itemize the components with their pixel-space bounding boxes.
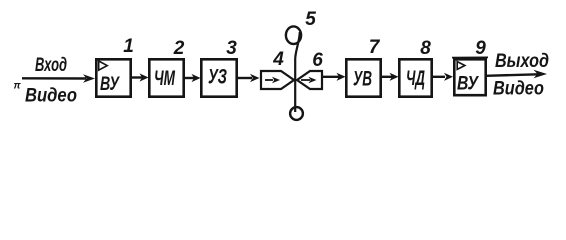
svg-text:1: 1 bbox=[123, 36, 134, 57]
arrowhead inside record head bbox=[272, 77, 280, 84]
wire: U1 to U2 bbox=[131, 76, 142, 78]
wire: input line into U1 bbox=[22, 77, 86, 80]
svg-text:ВУ: ВУ bbox=[457, 74, 480, 95]
svg-text:УЗ: УЗ bbox=[208, 66, 227, 89]
svg-text:УВ: УВ bbox=[353, 68, 372, 91]
svg-text:π: π bbox=[14, 81, 22, 92]
playback head 6 (pentagon) bbox=[297, 71, 322, 89]
block 1 input amplifier VU bbox=[96, 59, 130, 96]
wire: U7 to U8 bbox=[381, 76, 392, 78]
svg-text:7: 7 bbox=[369, 37, 381, 58]
arrowhead at output bbox=[534, 70, 548, 79]
tape line node 5 bbox=[295, 32, 300, 112]
svg-text:3: 3 bbox=[226, 38, 237, 59]
svg-text:8: 8 bbox=[420, 38, 431, 59]
wire: U8 to U9 bbox=[432, 76, 445, 78]
record head 4 (pentagon) bbox=[261, 71, 294, 89]
arrowhead at U1 input bbox=[83, 74, 95, 83]
wire: U2 to U3 bbox=[184, 77, 194, 79]
arrowhead at U3 input bbox=[192, 74, 201, 82]
svg-text:4: 4 bbox=[272, 49, 284, 70]
arrow inside playback head bbox=[301, 79, 310, 81]
arrow inside record head bbox=[265, 79, 273, 81]
wire: U3 to record head bbox=[237, 77, 252, 79]
arrowhead at U2 input bbox=[140, 73, 149, 81]
svg-text:Вход: Вход bbox=[35, 55, 67, 76]
svg-text:Видео: Видео bbox=[493, 79, 544, 100]
tape loop bottom bbox=[290, 107, 303, 120]
svg-text:6: 6 bbox=[312, 50, 323, 71]
svg-text:ВУ: ВУ bbox=[100, 74, 121, 95]
block 9 output amplifier VU bbox=[454, 59, 485, 95]
arrowhead at U7 input bbox=[337, 73, 346, 81]
svg-text:ЧД: ЧД bbox=[406, 67, 425, 90]
block 9 thick top border artifact bbox=[452, 56, 488, 58]
block 2 frequency modulator ChM bbox=[149, 59, 183, 96]
wire: output line bbox=[486, 74, 538, 76]
wire: playback head to U7 bbox=[322, 76, 339, 78]
tape loop top bbox=[286, 26, 301, 44]
arrowhead at U8 input bbox=[390, 73, 399, 81]
svg-text:ЧМ: ЧМ bbox=[154, 67, 175, 90]
arrowhead at U9 input bbox=[444, 73, 453, 81]
arrowhead at record head input bbox=[250, 74, 260, 82]
svg-text:2: 2 bbox=[173, 38, 185, 59]
svg-text:Выход: Выход bbox=[495, 51, 549, 72]
block 7 playback amplifier UV bbox=[346, 59, 380, 96]
block 8 frequency detector ChD bbox=[399, 59, 431, 96]
svg-text:9: 9 bbox=[475, 38, 486, 59]
svg-text:Видео: Видео bbox=[25, 86, 77, 107]
amplifier triangle in block 9 bbox=[457, 62, 465, 70]
amplifier triangle in block 1 bbox=[99, 61, 108, 70]
arrowhead inside playback head bbox=[309, 77, 317, 84]
block 3 record amplifier UZ bbox=[201, 59, 236, 96]
svg-text:5: 5 bbox=[305, 9, 316, 30]
